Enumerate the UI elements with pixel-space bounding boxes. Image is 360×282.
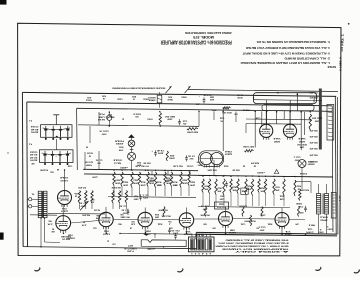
- svg-text:4: 4: [202, 252, 204, 255]
- svg-text:.05: .05: [183, 122, 187, 124]
- svg-text:R34 1K: R34 1K: [242, 108, 249, 111]
- svg-text:P-1: P-1: [29, 119, 32, 121]
- svg-text:+250V: +250V: [91, 175, 98, 177]
- svg-text:R18: R18: [150, 176, 153, 178]
- svg-text:R25A: R25A: [223, 164, 228, 167]
- svg-text:4-1950-A: 4-1950-A: [340, 56, 343, 71]
- svg-text:SW101: SW101: [143, 97, 148, 99]
- svg-text:V4A,B: V4A,B: [298, 137, 306, 140]
- svg-text:R102: R102: [132, 95, 136, 97]
- svg-text:R28A: R28A: [267, 222, 272, 225]
- svg-text:.1: .1: [320, 228, 323, 230]
- svg-text:10W: 10W: [135, 115, 138, 117]
- svg-text:3A SB: 3A SB: [97, 118, 105, 121]
- svg-text:R35 47K: R35 47K: [309, 91, 318, 94]
- svg-text:P102: P102: [308, 160, 314, 162]
- svg-text:R11: R11: [137, 161, 141, 163]
- svg-text:R20: R20: [203, 222, 206, 224]
- svg-text:C16A-D: C16A-D: [29, 150, 37, 153]
- svg-text:RELAY: RELAY: [167, 98, 173, 101]
- svg-text:SO-101: SO-101: [237, 93, 243, 95]
- svg-text:V6A: V6A: [185, 230, 191, 233]
- svg-text:R22 2.2M: R22 2.2M: [173, 164, 183, 166]
- svg-text:100K: 100K: [132, 181, 138, 183]
- svg-text:C10A: C10A: [240, 222, 245, 225]
- svg-text:+250V: +250V: [256, 171, 265, 173]
- svg-text:60∿: 60∿: [104, 116, 114, 119]
- svg-text:1W: 1W: [89, 154, 91, 156]
- svg-text:450V: 450V: [157, 152, 163, 155]
- svg-text:J10A,B: J10A,B: [59, 176, 68, 179]
- svg-text:WITH OTHER ∿ NO-CONNECTIONS DW: WITH OTHER ∿ NO-CONNECTIONS DWG'S POWER: [215, 245, 289, 248]
- svg-text:6SL7GT: 6SL7GT: [216, 205, 226, 207]
- svg-text:C17A,B: C17A,B: [30, 125, 38, 128]
- svg-text:R13: R13: [141, 180, 146, 182]
- svg-text:6SN7A: 6SN7A: [228, 231, 236, 234]
- svg-text:V1A: V1A: [61, 207, 67, 210]
- svg-text:10: 10: [133, 98, 135, 100]
- svg-text:250K: 250K: [279, 197, 284, 199]
- svg-text:40-40: 40-40: [31, 128, 39, 131]
- svg-text:R33A: R33A: [211, 108, 216, 111]
- svg-text:R3A 68K: R3A 68K: [60, 235, 71, 238]
- svg-text:GND: GND: [31, 162, 35, 164]
- svg-text:C15A: C15A: [307, 227, 312, 230]
- svg-text:C2 .05: C2 .05: [80, 201, 87, 203]
- svg-text:C15: C15: [183, 119, 188, 121]
- svg-text:R31: R31: [297, 184, 301, 186]
- svg-text:470: 470: [295, 222, 298, 225]
- svg-text:R18: R18: [182, 178, 187, 180]
- svg-text:C13B: C13B: [255, 116, 260, 118]
- svg-text:1- ALL RESISTORS 1/2 WATT UNLE: 1- ALL RESISTORS 1/2 WATT UNLESS OTHERWI…: [240, 61, 330, 64]
- svg-text:R31A: R31A: [279, 194, 284, 197]
- svg-text:DS1A,B: DS1A,B: [113, 159, 122, 162]
- svg-text:R22: R22: [217, 186, 221, 188]
- svg-text:+J-102: +J-102: [148, 248, 156, 250]
- svg-text:3- ALL READINGS TAKEN W 117V 6: 3- ALL READINGS TAKEN W 117V 60∿ LINE & …: [242, 52, 330, 55]
- svg-text:P-302: P-302: [127, 250, 134, 252]
- svg-text:6800: 6800: [134, 197, 139, 199]
- svg-text:R20: R20: [204, 184, 208, 186]
- svg-text:TH101: TH101: [147, 117, 152, 119]
- svg-text:K101: K101: [168, 95, 172, 97]
- svg-text:A-30954 ONLY: A-30954 ONLY: [233, 250, 289, 253]
- svg-text:C13 2X: C13 2X: [203, 93, 212, 95]
- svg-text:R32 22K: R32 22K: [300, 188, 309, 190]
- svg-text:S101 ON: S101 ON: [84, 160, 93, 162]
- svg-text:4- ALL VOLTAGES MEASURED WITH: 4- ALL VOLTAGES MEASURED WITH 20000Ω/V V…: [246, 46, 330, 49]
- svg-text:5: 5: [206, 252, 208, 254]
- svg-text:100K: 100K: [140, 183, 146, 185]
- svg-text:+C13: +C13: [196, 102, 200, 104]
- svg-text:C12 .1: C12 .1: [294, 155, 301, 157]
- svg-text:V3A,B: V3A,B: [273, 137, 281, 140]
- svg-text:6: 6: [209, 252, 211, 254]
- svg-text:C7A 25: C7A 25: [187, 164, 194, 167]
- svg-text:12AU7: 12AU7: [225, 153, 233, 156]
- svg-text:100K: 100K: [181, 181, 187, 183]
- svg-text:C8 .05: C8 .05: [197, 160, 204, 162]
- svg-text:450V: 450V: [29, 159, 38, 162]
- svg-text:R23: R23: [220, 194, 223, 196]
- svg-text:.5 600V: .5 600V: [305, 230, 314, 232]
- svg-text:1W: 1W: [175, 183, 177, 185]
- svg-text:R15: R15: [157, 180, 162, 182]
- svg-text:R27 100K: R27 100K: [242, 145, 254, 147]
- svg-text:R25 47K: R25 47K: [238, 204, 247, 207]
- svg-text:TONE: TONE: [242, 189, 248, 191]
- svg-text:R2 1M: R2 1M: [87, 151, 93, 153]
- svg-text:P-2: P-2: [29, 142, 32, 144]
- svg-text:NOTES:: NOTES:: [327, 65, 336, 67]
- svg-text:R10: R10: [115, 178, 120, 180]
- svg-text:450V: 450V: [30, 131, 39, 134]
- svg-text:POWER: POWER: [86, 163, 92, 165]
- svg-text:100K: 100K: [118, 148, 123, 150]
- svg-text:.1: .1: [327, 225, 329, 227]
- svg-text:R14A: R14A: [157, 222, 162, 225]
- svg-text:C16E: C16E: [67, 164, 72, 166]
- svg-text:TB101: TB101: [181, 95, 186, 97]
- svg-text:C12A: C12A: [219, 116, 224, 119]
- svg-text:P10A,B: P10A,B: [114, 139, 124, 142]
- svg-text:R36 250: R36 250: [312, 116, 322, 118]
- svg-text:R39 470K: R39 470K: [186, 131, 198, 134]
- svg-text:6SN7A: 6SN7A: [284, 233, 292, 236]
- svg-text:R35 47K: R35 47K: [309, 135, 318, 138]
- svg-text:5- TERMINALS REFERENCED AS SHO: 5- TERMINALS REFERENCED AS SHOWN ON TS 1…: [256, 40, 330, 43]
- svg-text:C3 .02: C3 .02: [120, 204, 127, 206]
- svg-text:10W: 10W: [300, 146, 305, 148]
- svg-text:C30: C30: [112, 242, 115, 244]
- svg-text:R1 470K: R1 470K: [39, 168, 48, 171]
- svg-text:R19A: R19A: [165, 176, 170, 179]
- svg-text:R28 470: R28 470: [251, 161, 259, 164]
- svg-text:MOTOR: MOTOR: [237, 96, 243, 98]
- svg-text:1800: 1800: [155, 216, 159, 218]
- svg-text:R3: R3: [52, 227, 54, 229]
- svg-text:V7A: V7A: [285, 230, 291, 233]
- svg-text:R15 2.2M: R15 2.2M: [135, 164, 144, 166]
- svg-text:C101A: C101A: [117, 97, 123, 100]
- svg-text:V5B: V5B: [145, 230, 151, 232]
- svg-text:V6B: V6B: [229, 228, 235, 230]
- svg-text:R5 1M: R5 1M: [94, 208, 100, 210]
- svg-text:R12: R12: [133, 178, 138, 180]
- svg-text:R19: R19: [190, 180, 195, 182]
- svg-text:R4: R4: [49, 219, 52, 222]
- svg-text:A-375: A-375: [339, 195, 342, 201]
- svg-text:.05: .05: [220, 119, 223, 121]
- svg-text:2: 2: [195, 252, 197, 254]
- svg-text:100K: 100K: [114, 181, 120, 183]
- svg-text:V2A,B: V2A,B: [224, 150, 232, 153]
- svg-text:6J5GX: 6J5GX: [59, 179, 67, 181]
- svg-text:R35 47K: R35 47K: [309, 147, 318, 150]
- svg-text:1: 1: [191, 252, 193, 254]
- svg-text:C13 .1: C13 .1: [259, 225, 266, 227]
- svg-text:R13 1800: R13 1800: [158, 208, 167, 210]
- svg-text:10W: 10W: [167, 118, 172, 120]
- svg-text:2X40: 2X40: [210, 95, 214, 98]
- svg-text:R12: R12: [134, 194, 137, 196]
- svg-text:470K: 470K: [95, 217, 100, 220]
- svg-text:R8 220K: R8 220K: [111, 186, 121, 188]
- svg-text:12AX7: 12AX7: [61, 210, 68, 213]
- svg-text:R31B: R31B: [295, 202, 301, 204]
- svg-text:R210: R210: [275, 185, 279, 187]
- svg-text:600BY: 600BY: [115, 142, 123, 144]
- svg-text:R24 220K: R24 220K: [207, 168, 217, 171]
- svg-text:1W: 1W: [254, 164, 257, 166]
- svg-text:+400V: +400V: [119, 166, 128, 169]
- svg-text:C101 .05: C101 .05: [99, 129, 108, 131]
- svg-text:R24: R24: [232, 185, 236, 188]
- svg-text:20-20: 20-20: [30, 153, 38, 155]
- svg-text:.02: .02: [91, 201, 94, 203]
- svg-text:R26 1M: R26 1M: [232, 168, 239, 170]
- svg-text:470K: 470K: [168, 157, 174, 160]
- svg-text:.05: .05: [120, 216, 123, 218]
- svg-text:R30 250: R30 250: [297, 143, 307, 145]
- svg-text:R10: R10: [131, 220, 134, 222]
- svg-text:10W: 10W: [315, 119, 320, 121]
- svg-text:B VALUES ONLY WHEN A DRAWER NO: B VALUES ONLY WHEN A DRAWER NO. 30975 30…: [218, 242, 289, 245]
- svg-text:R4: R4: [83, 220, 85, 223]
- svg-text:C6 40: C6 40: [157, 149, 164, 152]
- svg-text:C5 .1: C5 .1: [143, 193, 149, 195]
- svg-text:S101: S101: [87, 96, 91, 98]
- svg-text:C10 .05: C10 .05: [201, 204, 209, 206]
- svg-text:R21: R21: [170, 154, 175, 156]
- svg-text:123: 123: [342, 47, 344, 52]
- svg-text:R11: R11: [123, 180, 128, 182]
- svg-text:R14 22K: R14 22K: [161, 214, 171, 217]
- svg-text:LINE: LINE: [98, 115, 105, 117]
- svg-text:.1: .1: [169, 223, 171, 225]
- svg-text:3: 3: [198, 252, 200, 254]
- svg-text:2- ALL CAPACITORS IN MFD: 2- ALL CAPACITORS IN MFD: [284, 57, 330, 60]
- svg-text:600BY: 600BY: [306, 163, 314, 165]
- svg-text:100K: 100K: [189, 183, 195, 185]
- svg-text:R26: R26: [247, 184, 251, 186]
- svg-text:R35 47K: R35 47K: [309, 96, 318, 99]
- svg-text:1500: 1500: [220, 197, 225, 199]
- svg-text:R7 47K: R7 47K: [77, 186, 86, 189]
- svg-text:TRK A: TRK A: [308, 223, 315, 226]
- svg-text:TS-101: TS-101: [196, 233, 204, 235]
- svg-text:P101A: P101A: [299, 172, 307, 175]
- svg-text:R35 47K: R35 47K: [309, 153, 318, 156]
- svg-text:INDICATES SCREWDRIVER ADJUSTME: INDICATES SCREWDRIVER ADJUSTMENT POTENTI…: [112, 86, 165, 89]
- svg-text:R20 1M: R20 1M: [143, 161, 150, 163]
- svg-text:THIS TERMINAL USED AT ALL STAN: THIS TERMINAL USED AT ALL STANDARD: [225, 239, 289, 242]
- svg-text:F102: F102: [102, 94, 106, 96]
- svg-text:C7 25: C7 25: [188, 154, 195, 156]
- svg-text:TOGGLE: TOGGLE: [85, 99, 92, 101]
- svg-text:TRANSFORMER NOT CHANGE: TRANSFORMER NOT CHANGE: [221, 247, 289, 250]
- svg-text:JONES PLUG: JONES PLUG: [123, 247, 137, 249]
- svg-text:R103 10: R103 10: [133, 112, 140, 114]
- svg-text:470K: 470K: [149, 179, 154, 182]
- svg-text:+: +: [55, 155, 56, 157]
- svg-text:C4 .02: C4 .02: [122, 208, 129, 211]
- svg-text:R40 250: R40 250: [164, 115, 175, 118]
- svg-text:R17: R17: [173, 180, 178, 182]
- svg-text:R35 47K: R35 47K: [309, 141, 318, 144]
- svg-text:20-20: 20-20: [30, 156, 38, 158]
- svg-text:R13A: R13A: [154, 213, 159, 216]
- svg-text:WW 1%: WW 1%: [62, 238, 70, 240]
- svg-text:FIG. 1: FIG. 1: [341, 34, 345, 46]
- svg-text:R101: R101: [119, 145, 124, 147]
- svg-text:SW: SW: [86, 145, 88, 147]
- svg-text:AMPEX ELECTRIC CORPORATION: AMPEX ELECTRIC CORPORATION: [185, 31, 232, 35]
- svg-text:100K: 100K: [122, 183, 128, 185]
- svg-text:R6 47K: R6 47K: [81, 213, 90, 216]
- svg-text:NE-51: NE-51: [114, 161, 121, 163]
